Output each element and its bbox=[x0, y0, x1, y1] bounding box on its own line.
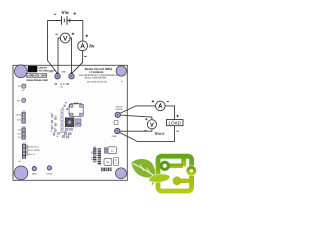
trace circle to right edge bbox=[177, 179, 192, 183]
gap for donut on right edge bbox=[189, 166, 195, 176]
ammeter A1 (input) bbox=[78, 35, 88, 57]
tiny specks above inductor bbox=[62, 102, 68, 110]
wire: pad VOUT to V2 top bbox=[120, 115, 151, 120]
jumper JP3 bbox=[22, 142, 40, 159]
top stub bbox=[181, 156, 186, 167]
inner trace to donut bbox=[166, 164, 183, 168]
svg-text:TECHNOLOGY: TECHNOLOGY bbox=[38, 70, 55, 73]
svg-text:630 JOHN DEERE RD: 630 JOHN DEERE RD bbox=[87, 81, 108, 84]
svg-text:AUX IN: AUX IN bbox=[28, 153, 35, 156]
svg-text:GND: GND bbox=[112, 135, 117, 138]
component column left of IC bbox=[61, 110, 63, 133]
mounting hole TR bbox=[116, 66, 126, 76]
phone label bbox=[26, 73, 47, 77]
green logo PCB square bbox=[158, 156, 195, 191]
svg-text:IIN: IIN bbox=[89, 44, 94, 50]
svg-text:LT3435EUF: LT3435EUF bbox=[90, 71, 104, 74]
jumper JP2 bbox=[17, 125, 25, 139]
svg-text:www.linear.com: www.linear.com bbox=[25, 78, 48, 82]
svg-text:SYNC: SYNC bbox=[46, 172, 52, 175]
L1 box bottom right bbox=[104, 147, 116, 154]
svg-text:UV: UV bbox=[17, 99, 21, 102]
mounting hole TL bbox=[14, 65, 27, 78]
bottom pad SYNC bbox=[47, 166, 51, 170]
svg-text:C1: C1 bbox=[50, 112, 52, 115]
bottom right cluster: hatched pin strips bbox=[91, 146, 101, 164]
battery minus sign bbox=[54, 13, 56, 15]
board outline bbox=[13, 65, 127, 180]
svg-text:SHDT MODE: SHDT MODE bbox=[28, 149, 40, 152]
battery Vin bbox=[62, 16, 70, 25]
output cap C+ bbox=[112, 121, 118, 125]
svg-text:VOUT: VOUT bbox=[155, 131, 165, 136]
wire: A1 to pad bbox=[72, 51, 83, 74]
svg-text:RUN: RUN bbox=[17, 119, 22, 122]
wire: input loop top bbox=[48, 21, 83, 74]
bottom pad GND bbox=[32, 166, 36, 170]
svg-text:SHDN: SHDN bbox=[16, 113, 22, 116]
svg-text:3.3V/3A: 3.3V/3A bbox=[115, 108, 123, 111]
mounting hole BR bbox=[116, 168, 127, 179]
svg-text:BUCK CONVERTER: BUCK CONVERTER bbox=[85, 76, 107, 79]
C box bottom right bbox=[114, 158, 119, 166]
svg-text:U1: U1 bbox=[106, 161, 110, 164]
demo circuit title text bbox=[79, 67, 118, 80]
inductor L footprint bbox=[69, 101, 83, 116]
leaf big bbox=[131, 159, 155, 178]
IC U1 dark bbox=[65, 118, 74, 127]
svg-text:R4: R4 bbox=[54, 115, 56, 118]
svg-text:GND: GND bbox=[61, 71, 66, 74]
tiny via dot 2 bbox=[121, 81, 123, 83]
donut pad upper-left bbox=[161, 162, 168, 169]
tiny via dot bbox=[19, 161, 21, 163]
svg-text:C7: C7 bbox=[54, 127, 56, 130]
scattered tiny parts left bbox=[51, 115, 60, 136]
battery plus sign bbox=[74, 12, 76, 14]
wire: V2 bottom to pad GND bbox=[120, 129, 152, 131]
svg-text:LOAD: LOAD bbox=[168, 120, 181, 125]
svg-text:GND: GND bbox=[32, 173, 37, 176]
wire: LOAD bottom to rail bbox=[120, 126, 175, 142]
mounting hole BL bbox=[14, 166, 28, 180]
U1 box bottom right bbox=[104, 158, 112, 165]
svg-text:FREQ FOLL: FREQ FOLL bbox=[28, 146, 39, 149]
small parts below IC bbox=[62, 128, 72, 138]
LOAD box bbox=[167, 115, 184, 131]
svg-text:(408)432-1900: (408)432-1900 bbox=[27, 74, 47, 78]
donut pad right edge bbox=[188, 167, 195, 174]
LT logo bbox=[28, 66, 56, 73]
filled circle pad bbox=[173, 176, 182, 185]
svg-text:C2: C2 bbox=[50, 130, 52, 133]
junction dot input right bbox=[70, 72, 72, 74]
leaf stem bbox=[152, 179, 160, 185]
jumper JP1 bbox=[16, 110, 26, 124]
input cap footprint between pads bbox=[55, 83, 69, 85]
output pad GND bbox=[115, 128, 120, 133]
ammeter A2 (output) bbox=[152, 100, 169, 111]
junction dot input left bbox=[56, 72, 58, 74]
svg-text:VIN: VIN bbox=[61, 10, 68, 16]
bottom pin strip bbox=[101, 168, 111, 172]
voltmeter V2 (output) bbox=[144, 118, 156, 130]
svg-text:R9: R9 bbox=[56, 135, 58, 138]
wire: V1 leads bbox=[58, 38, 72, 74]
input pad VIN bbox=[55, 74, 60, 79]
leaf small bbox=[149, 174, 170, 182]
small rects right of IC bbox=[76, 119, 81, 122]
svg-text:VIN: VIN bbox=[49, 71, 53, 74]
wire: pad VOUT diagonal to top rail bbox=[120, 106, 175, 120]
svg-text:R1: R1 bbox=[50, 124, 52, 127]
svg-text:LT: LT bbox=[28, 67, 35, 73]
voltmeter V1 (input) bbox=[55, 33, 74, 43]
input pad GND bbox=[69, 74, 74, 79]
